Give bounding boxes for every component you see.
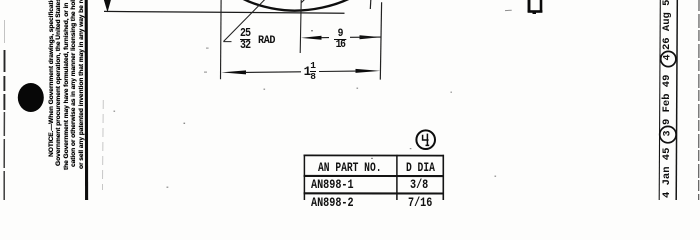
faint dash left of rectangle	[505, 9, 512, 11]
dimension 1 1/8	[304, 65, 312, 79]
fraction 25/32 RAD	[240, 28, 250, 51]
revision band rotated text: 9 Feb 49	[662, 74, 673, 124]
9/16 dimension line + arrows	[301, 35, 381, 40]
table row 1	[311, 177, 354, 192]
table header text	[318, 160, 382, 175]
NOTICE rotated text block	[48, 0, 85, 170]
extension line left (x=221)	[220, 0, 223, 79]
noise specks	[114, 30, 497, 188]
left page-edge faint upper segment	[4, 20, 6, 43]
circled 3 in band	[660, 126, 676, 142]
leader for 25/32 RAD	[223, 0, 264, 42]
revision band rotated text: 26 Aug 52	[662, 0, 673, 50]
typewriter open-top 4 glyph	[423, 134, 430, 146]
long horizontal line	[104, 11, 345, 13]
digit 4 in band circle	[663, 51, 674, 65]
punch hole dot	[18, 83, 44, 112]
left page-edge dashed line	[3, 50, 5, 200]
down arrowhead top-left	[104, 0, 111, 12]
extension line right (x=381)	[380, 2, 381, 79]
page right edge line	[698, 0, 700, 200]
fraction 9/16	[334, 29, 346, 51]
digit 3 in band circle	[662, 126, 673, 140]
circled 4 above table	[416, 130, 435, 149]
small open rectangle top right	[528, 0, 543, 13]
arc (bottom of eye circle)	[243, 0, 351, 11]
faint inner margin line	[102, 100, 105, 190]
revision band rotated text: 4 Jan 45	[662, 148, 673, 198]
thick margin bar	[85, 0, 89, 200]
revision band left line	[659, 0, 660, 200]
extension line center (x=300)	[300, 0, 305, 53]
short stub line at top (x=370)	[369, 0, 372, 9]
1 1/8 dimension line + arrows	[221, 69, 380, 75]
circled 4 in band	[661, 51, 676, 66]
table row 2 (partial, cut at bottom)	[311, 195, 354, 210]
table borders	[304, 155, 445, 200]
revision band right line	[676, 0, 677, 200]
